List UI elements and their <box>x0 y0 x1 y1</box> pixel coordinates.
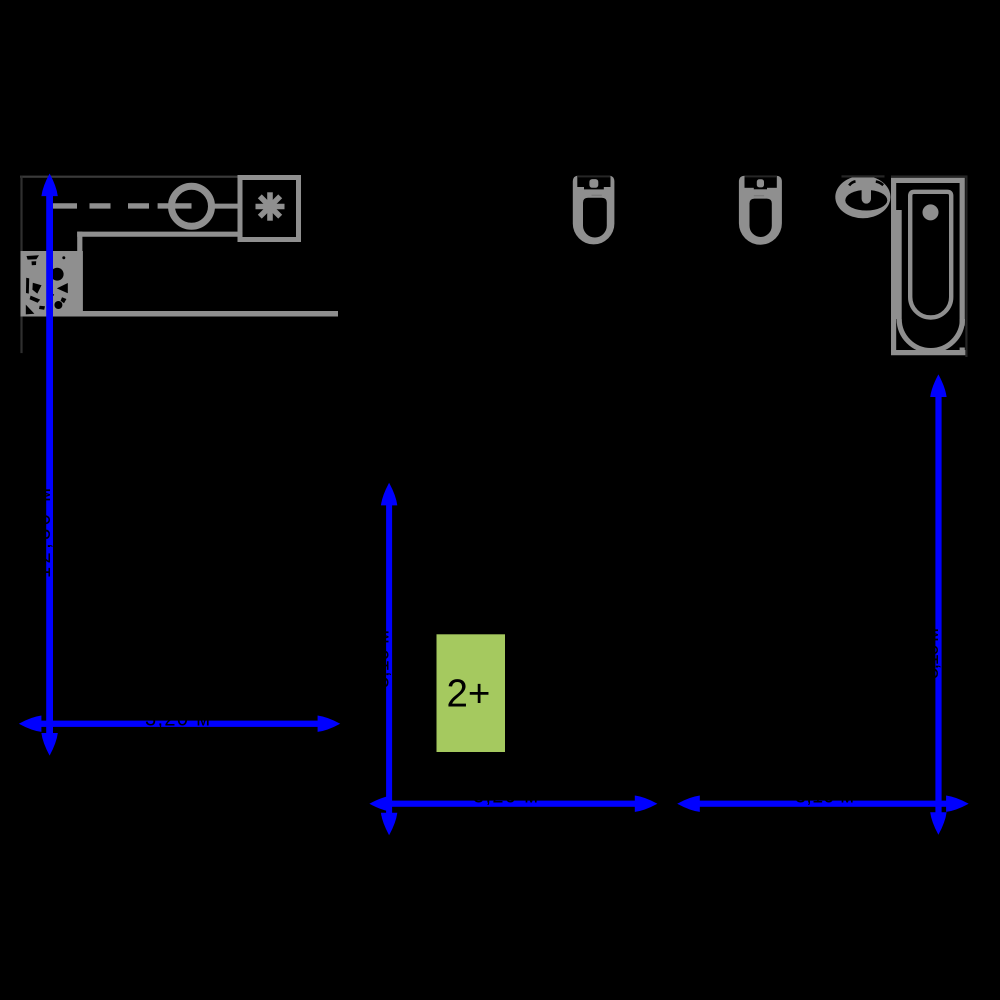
wash basin <box>835 175 890 218</box>
svg-text:2+: 2+ <box>447 673 491 716</box>
svg-text:3,10 м: 3,10 м <box>795 785 854 807</box>
wall right <box>965 176 967 357</box>
dimension H3 horizontal arrow line <box>677 785 969 812</box>
counter top edge <box>77 232 242 237</box>
dimension V2 vertical arrow line <box>372 483 398 836</box>
dimension H2 horizontal arrow line <box>369 785 657 812</box>
svg-text:3,10 м: 3,10 м <box>372 630 394 688</box>
room capacity badge <box>437 634 506 752</box>
washing machine hatched square <box>23 253 81 314</box>
dimension V3 vertical arrow line <box>921 374 947 834</box>
wall left <box>20 176 22 354</box>
wire connector circle to stove <box>214 204 239 209</box>
counter front edge long line <box>21 311 339 317</box>
dimension V1 vertical arrow line <box>33 174 58 756</box>
bathtub <box>891 180 966 352</box>
stove asterisk <box>256 192 285 220</box>
stove square <box>240 178 299 240</box>
stove square lower-left connector <box>238 232 243 240</box>
bathtub drain <box>923 204 939 220</box>
svg-text:3,10 м: 3,10 м <box>921 628 943 679</box>
wall top bath <box>891 175 968 177</box>
boiler circle B1 <box>172 186 212 226</box>
dimension H1 horizontal arrow line <box>19 709 340 732</box>
svg-text:3,20 м: 3,20 м <box>145 709 210 731</box>
kitchen dashed supply line <box>52 203 192 208</box>
wall top kitchen <box>20 176 238 178</box>
toilet WC1 <box>573 175 615 244</box>
svg-text:3,20 м: 3,20 м <box>473 785 538 807</box>
counter left edge <box>77 232 82 252</box>
toilet WC2 <box>739 175 782 244</box>
